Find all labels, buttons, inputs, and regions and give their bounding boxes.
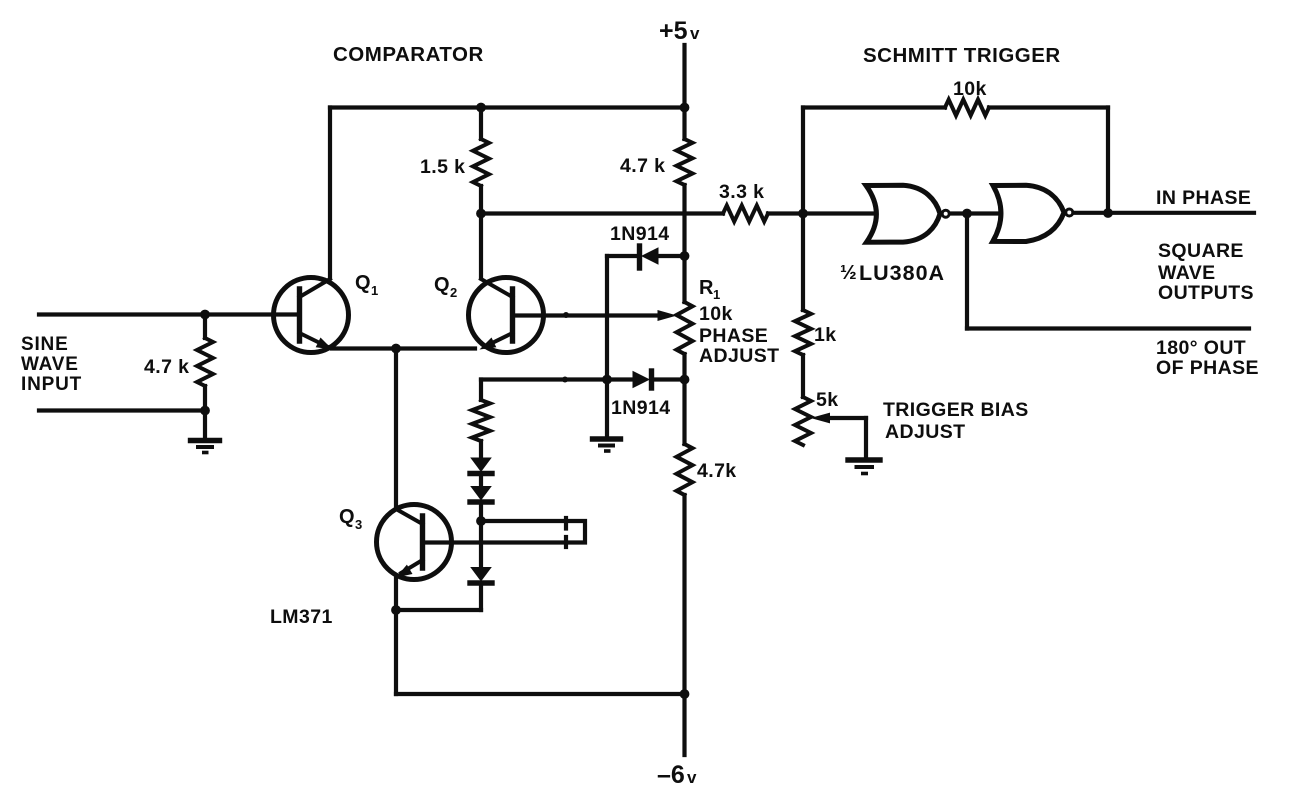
svg-text:OUTPUTS: OUTPUTS [1158,282,1254,304]
svg-text:3: 3 [355,517,362,532]
ground diode clamp [593,439,621,451]
wire upper 1N914 left lead [607,254,638,258]
resistor 4.7k lower (to -6v) [677,444,693,495]
wire 1.5k top stub [479,108,483,140]
ref 1/2 LU380A [840,261,945,285]
svg-text:ADJUST: ADJUST [699,345,779,367]
wire bottom rail [396,692,685,696]
wire lower 1N914 left lead [481,377,632,381]
label 180 OUT OF PHASE [1156,337,1259,379]
wire 180deg drop [965,214,969,329]
svg-text:Q: Q [434,274,450,296]
label SINE WAVE INPUT [21,334,82,395]
node -6v stub [682,694,686,755]
resistor 1k [795,310,811,355]
wire 3.3k to schmitt input [768,211,875,215]
wire bias chain top [479,380,483,401]
svg-text:3.3 k: 3.3 k [719,181,764,203]
wire trigger bias ground drop [864,418,868,456]
wire emitter bus Q1-Q2 [332,346,475,350]
svg-text:COMPARATOR: COMPARATOR [333,43,484,66]
ref Q2 [434,274,457,300]
node R1 bottom junction [680,375,690,385]
resistor 1.5k [473,139,489,186]
node bias chain / stub junction [476,516,486,526]
svg-text:1: 1 [713,287,720,302]
wire diode ground stub [605,380,609,438]
svg-text:Q: Q [339,506,355,528]
svg-text:4.7 k: 4.7 k [144,356,189,378]
wire emitter node to Q3 collector [394,349,398,509]
wire input ground stub [203,411,207,439]
svg-text:SQUARE: SQUARE [1158,240,1244,262]
arrow R1 wiper [658,310,678,321]
wire diode node to lower 4.7k [682,380,686,445]
wire 180deg output [967,326,1249,330]
ref Q1 [355,272,378,298]
svg-text:R: R [699,277,714,299]
wire feedback rail right [989,105,1108,109]
svg-text:10k: 10k [953,78,987,100]
NOR gate U1b [993,185,1073,241]
node +5v rail junction [680,103,690,113]
transistor Q2 [469,278,544,353]
label SQUARE WAVE OUTPUTS [1158,240,1254,304]
wire Q3 emitter drop [394,577,398,694]
svg-text:v: v [690,24,700,43]
wire input resistor top stub [203,315,207,339]
power -6v [657,761,697,787]
ref Q3 [339,506,362,532]
wire feedback rail left [803,105,945,109]
wire feedback left drop [801,108,805,214]
resistor 4.7k upper (collector load) [677,139,693,185]
node emitter bus junction [391,344,401,354]
wire comparator output line [481,211,723,215]
svg-text:4.7 k: 4.7 k [620,155,665,177]
potentiometer 5k element [795,397,811,445]
wire D3 to emitter return [479,583,483,610]
ground sine input [191,441,220,453]
wire Q2 base to R1 wiper [513,313,659,317]
resistor bias chain [472,400,490,441]
wire +5v column upper stub [682,108,686,140]
wire sine input top [39,312,298,316]
svg-text:INPUT: INPUT [21,374,82,395]
node input / 4.7k junction [200,310,210,320]
wire 1N914 ground drop [605,256,609,380]
svg-text:+5: +5 [659,17,688,45]
svg-text:WAVE: WAVE [21,354,79,375]
transistor Q1 [274,278,349,353]
wire 1.5k bottom to Q2 collector [479,186,483,278]
diode chain D2 (points down) [470,486,492,502]
node comparator output junction [476,209,486,219]
svg-text:SINE: SINE [21,334,69,355]
wire input resistor bottom stub [203,386,207,411]
wire Q3 emitter node link [396,608,481,612]
NOR gate U1a [866,185,949,242]
node input low / ground junction [200,406,210,416]
svg-text:½: ½ [840,262,857,284]
wire chain diode to node [479,503,483,522]
wire trigger bias arrow lead [823,416,866,420]
diode chain D3 (points down) [470,567,492,583]
svg-text:1N914: 1N914 [611,397,670,419]
wire R1 bottom to diode node [682,354,686,380]
wire bias chain resistor-diode [479,441,483,457]
node bottom rail / -6v junction [680,689,690,699]
ref R1 [699,277,720,302]
svg-text:1k: 1k [814,324,837,346]
wire 4.7k to 1N914 node [682,185,686,256]
wire lower 4.7k to bottom rail [682,495,686,694]
svg-text:Q: Q [355,272,371,294]
svg-text:1: 1 [371,283,378,298]
wire gate1 output to gate2 input [949,211,1001,215]
ground trigger bias [848,460,880,474]
svg-text:1.5 k: 1.5 k [420,156,465,178]
svg-text:LU380A: LU380A [859,261,945,285]
node schmitt input junction [798,209,808,219]
transistor Q3 [377,505,452,580]
svg-text:2: 2 [450,285,457,300]
wire top supply rail [330,105,685,109]
node Q3 base stub box [424,518,585,547]
svg-text:OF PHASE: OF PHASE [1156,357,1259,379]
resistor 10k feedback [945,100,989,116]
wire 1k column stub [801,214,805,311]
svg-text:180° OUT: 180° OUT [1156,337,1246,359]
svg-text:v: v [687,768,697,787]
node top rail / 1.5k junction [476,103,486,113]
resistor 4.7k sine input [197,338,213,386]
node upper diode / R1 junction [680,251,690,261]
wire in-phase output [1073,211,1255,215]
node diode ground branch junction [602,375,612,385]
potentiometer R1 10k element [677,302,693,354]
wire upper 1N914 right lead [659,254,685,258]
svg-text:4.7k: 4.7k [697,460,737,482]
svg-text:WAVE: WAVE [1158,262,1216,284]
svg-text:1N914: 1N914 [610,223,669,245]
wire 1N914 node to R1 top [682,256,686,302]
diode 1N914 upper (points left) [640,246,659,268]
arrow 5k wiper [811,413,831,424]
node diode line tick [562,377,568,383]
node in-phase / feedback junction [1103,208,1113,218]
svg-text:LM371: LM371 [270,606,333,628]
node Q3 emitter return junction [391,605,401,615]
svg-text:SCHMITT TRIGGER: SCHMITT TRIGGER [863,44,1061,67]
wire 1k to 5k pot [801,355,805,397]
wire node through base to D3 [479,521,483,567]
node gate1 output junction [962,209,972,219]
diode 1N914 lower (points right) [633,371,652,388]
svg-text:IN PHASE: IN PHASE [1156,187,1251,209]
wire Q1 collector riser [328,108,332,279]
resistor 3.3k [723,206,768,222]
diode chain D1 (points down) [470,458,492,474]
node +5v stub [682,45,686,108]
svg-text:ADJUST: ADJUST [885,421,965,443]
wire between chain diodes [479,475,483,487]
svg-text:PHASE: PHASE [699,325,768,347]
svg-text:10k: 10k [699,303,733,325]
power +5v [659,17,700,45]
wire feedback right drop [1106,108,1110,214]
wire sine input bottom [39,408,205,412]
svg-text:TRIGGER BIAS: TRIGGER BIAS [883,399,1029,421]
svg-text:5k: 5k [816,389,839,411]
node Q2 base tick [563,312,569,318]
svg-text:–6: –6 [657,761,685,787]
wire lower 1N914 right lead [652,377,685,381]
